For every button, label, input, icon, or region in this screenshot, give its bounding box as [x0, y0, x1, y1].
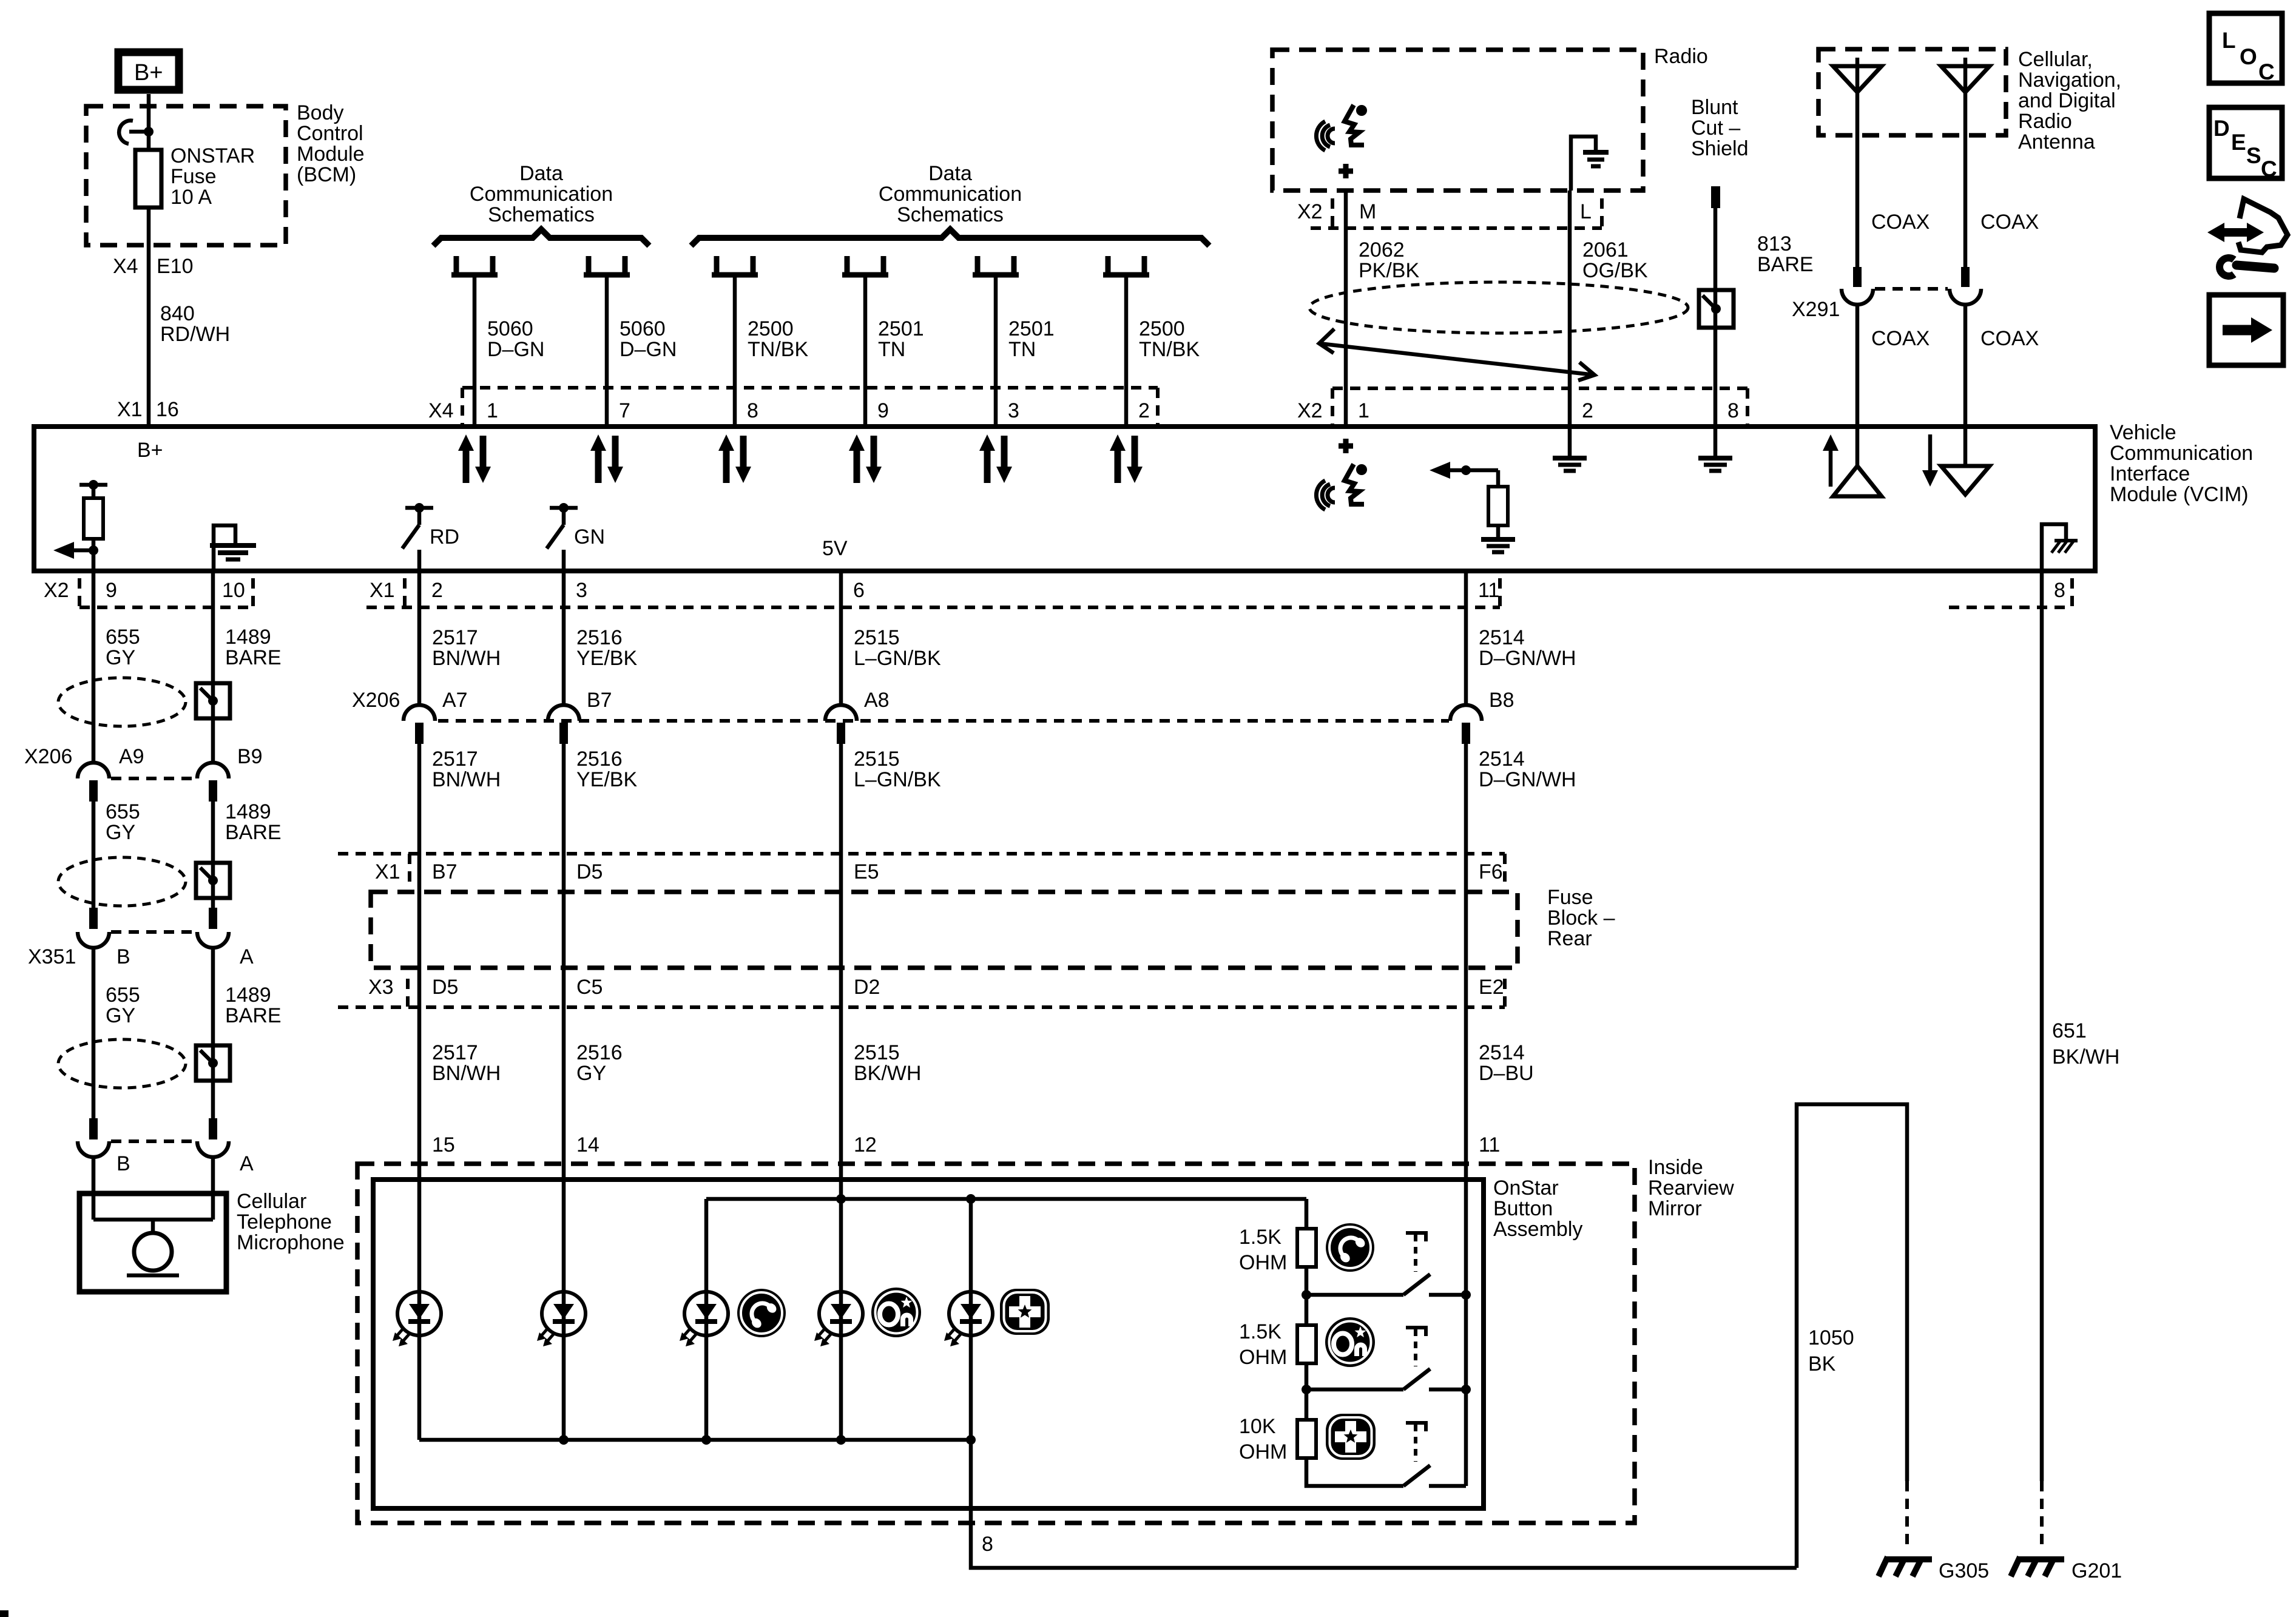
svg-text:L: L [2222, 28, 2236, 53]
svg-text:Antenna: Antenna [2018, 130, 2095, 154]
svg-text:X4: X4 [428, 399, 454, 422]
svg-text:TN/BK: TN/BK [748, 338, 808, 361]
wire label 2514 D–BU (3) [1479, 1041, 1534, 1085]
svg-text:E2: E2 [1479, 976, 1504, 999]
wire label 1489 BARE [225, 626, 282, 669]
fuse block X1 row dotted [338, 854, 1505, 887]
internal termination T-bar [79, 483, 107, 487]
wire label 2501 TN [878, 317, 924, 361]
svg-text:A9: A9 [119, 745, 144, 768]
svg-text:Radio: Radio [1654, 45, 1708, 68]
switch 1 row [1306, 1274, 1466, 1295]
svg-text:COAX: COAX [1980, 211, 2039, 234]
svg-text:Cellular: Cellular [237, 1190, 306, 1213]
wire circuit 2515 through fuse block [839, 854, 843, 1007]
bidirectional data arrows 1 [458, 434, 491, 483]
svg-text:L: L [1580, 200, 1592, 223]
svg-text:Button: Button [1493, 1197, 1553, 1220]
svg-text:X1: X1 [370, 579, 395, 602]
wire pin 8 drop [971, 1440, 1797, 1568]
label Cellular Telephone Microphone [237, 1190, 345, 1254]
svg-text:6: 6 [853, 579, 865, 602]
svg-text:2500: 2500 [1139, 317, 1185, 340]
onstar button assembly box [373, 1180, 1484, 1508]
label Fuse Block Rear [1547, 886, 1615, 950]
junction dot sw1 left [1302, 1290, 1311, 1300]
twisted pair shield ellipse (radio) [1309, 282, 1688, 333]
svg-text:X4: X4 [113, 255, 138, 278]
junction dot bus/LED2 [559, 1435, 569, 1445]
wire label 2516 GY (3) [576, 1041, 623, 1085]
LED cathode bus [419, 1438, 971, 1442]
connector X291 arcs [1842, 289, 1981, 305]
coax wire 1 upper [1855, 135, 1860, 271]
svg-text:2516: 2516 [576, 1041, 623, 1064]
wire G305 dashed drop [1905, 1481, 1909, 1551]
svg-text:2500: 2500 [748, 317, 794, 340]
wire 655 GY segment 3 [92, 947, 96, 1126]
label Data Communication Schematics (left group) [470, 162, 613, 226]
svg-text:BARE: BARE [1757, 253, 1814, 276]
svg-text:BK/WH: BK/WH [2052, 1045, 2119, 1068]
wire circuit 2516 through fuse block [562, 854, 566, 1007]
wire circuit 2517 through fuse block [417, 854, 422, 1007]
connector to data link 4 [842, 256, 888, 275]
microphone connector arcs [78, 1141, 229, 1157]
wire circuit 2517 segment 1 [417, 571, 422, 705]
onstar icon (LED4) [871, 1288, 921, 1337]
wire circuit 2514 segment 2 [1464, 744, 1468, 854]
label Inside Rearview Mirror [1648, 1156, 1734, 1220]
svg-text:Blunt: Blunt [1691, 96, 1738, 119]
svg-text:BARE: BARE [225, 1004, 282, 1027]
svg-text:E: E [2231, 130, 2246, 155]
svg-text:Vehicle: Vehicle [2110, 421, 2176, 444]
wire label 1050 BK [1808, 1326, 1854, 1376]
svg-text:2515: 2515 [854, 1041, 900, 1064]
wire label 813 BARE [1757, 232, 1814, 276]
junction dot sw2 right [1461, 1385, 1471, 1394]
svg-text:14: 14 [576, 1133, 599, 1156]
connector row X1 dashed [366, 578, 1500, 607]
wire label 2515 L–GN/BK [854, 626, 941, 670]
junction dot [144, 127, 154, 137]
svg-text:2501: 2501 [878, 317, 924, 340]
junction dot bus/LED5 [966, 1435, 976, 1445]
blunt cut end [1711, 186, 1720, 208]
speaker voice icon (radio) [1316, 105, 1367, 150]
svg-text:Inside: Inside [1648, 1156, 1703, 1179]
svg-text:D–GN: D–GN [620, 338, 677, 361]
wire label 2500 TN/BK [1139, 317, 1200, 361]
switch 2 row [1306, 1369, 1466, 1389]
svg-text:X291: X291 [1792, 298, 1840, 321]
label 10K OHM [1239, 1415, 1287, 1463]
svg-text:8: 8 [747, 399, 758, 422]
svg-text:Communication: Communication [879, 183, 1022, 206]
svg-text:2061: 2061 [1582, 238, 1629, 262]
LOC navigation box [2209, 13, 2282, 84]
connector row X2(1,2,8) dashed [1332, 388, 1747, 424]
bidirectional data arrows 3 [718, 434, 751, 483]
svg-text:B7: B7 [587, 689, 612, 712]
svg-text:X2: X2 [44, 579, 69, 602]
crossover arrow (twisted pair) [1319, 329, 1595, 380]
svg-text:OG/BK: OG/BK [1582, 259, 1648, 282]
svg-text:840: 840 [160, 302, 195, 325]
svg-text:Microphone: Microphone [237, 1231, 345, 1254]
svg-text:OHM: OHM [1239, 1346, 1287, 1369]
wire label 2515 L–GN/BK (2) [854, 748, 941, 791]
DESC navigation box [2209, 107, 2282, 181]
svg-text:Fuse: Fuse [171, 165, 217, 188]
label 1.5K OHM (2) [1239, 1320, 1287, 1369]
svg-text:YE/BK: YE/BK [576, 768, 637, 791]
shield terminal square 2 [196, 863, 230, 898]
svg-text:D5: D5 [576, 860, 603, 883]
wire CAN bus 4 circuit 2500 [1124, 275, 1129, 427]
svg-text:11: 11 [1478, 579, 1499, 602]
wire circuit 2516 segment 3 [562, 1007, 566, 1180]
internal arrow to X2-9 [53, 542, 93, 559]
svg-text:TN: TN [878, 338, 905, 361]
svg-text:F6: F6 [1479, 860, 1503, 883]
wire 813 BARE [1714, 206, 1718, 427]
svg-text:D–GN/WH: D–GN/WH [1479, 647, 1576, 670]
svg-text:B: B [116, 1152, 130, 1175]
switch 3 row [1306, 1458, 1466, 1486]
svg-text:YE/BK: YE/BK [576, 647, 637, 670]
svg-text:BARE: BARE [225, 821, 282, 844]
svg-text:Module: Module [297, 143, 365, 166]
wire label 1489 BARE (3) [225, 984, 282, 1027]
svg-text:C5: C5 [576, 976, 603, 999]
wire label 2061 OG/BK [1582, 238, 1648, 282]
svg-text:Communication: Communication [2110, 442, 2253, 465]
wire CAN bus 1 circuit 2500 [733, 275, 737, 427]
svg-text:Rear: Rear [1547, 927, 1592, 950]
vehicle communication interface module (VCIM) box [34, 427, 2095, 571]
wire circuit 2515 segment 1 [839, 571, 843, 705]
svg-text:5060: 5060 [487, 317, 533, 340]
fuse block rear heavy dashed box [371, 892, 1518, 968]
antenna symbol 1 [1833, 58, 1882, 135]
svg-text:L–GN/BK: L–GN/BK [854, 768, 941, 791]
LED 2 [537, 1292, 586, 1346]
svg-text:2516: 2516 [576, 626, 623, 649]
connector X351 arcs [78, 932, 229, 948]
switch RD [402, 503, 433, 571]
LED 3 [680, 1292, 728, 1346]
svg-text:M: M [1359, 200, 1376, 223]
fuse ONSTAR 10A [135, 150, 161, 208]
svg-text:G305: G305 [1939, 1559, 1989, 1582]
svg-text:Mirror: Mirror [1648, 1197, 1702, 1220]
svg-text:655: 655 [106, 984, 140, 1007]
connector X206 arc B8 [1450, 705, 1482, 721]
wire 1050 BK loop [1797, 1104, 1907, 1568]
svg-text:15: 15 [432, 1133, 455, 1156]
twisted pair shield ellipse 1 [58, 678, 186, 726]
connector to data link 5 [973, 256, 1019, 275]
connector to data link 1 [451, 256, 498, 275]
svg-text:COAX: COAX [1871, 211, 1930, 234]
cross icon (button) [1326, 1414, 1376, 1460]
svg-text:2517: 2517 [432, 626, 478, 649]
svg-text:Assembly: Assembly [1493, 1218, 1582, 1241]
label Data Communication Schematics (right group) [879, 162, 1022, 226]
svg-text:1489: 1489 [225, 984, 271, 1007]
svg-text:1: 1 [1358, 399, 1369, 422]
svg-text:Cut –: Cut – [1691, 116, 1740, 140]
svg-text:GY: GY [106, 821, 135, 844]
switch 3 actuator [1406, 1423, 1428, 1462]
label ONSTAR Fuse 10 A [171, 144, 255, 209]
junction dot [89, 480, 98, 490]
resistor 1.5K OHM (onstar) [1297, 1295, 1316, 1363]
svg-text:2062: 2062 [1359, 238, 1405, 262]
ground symbol inside radio [1571, 137, 1609, 191]
svg-text:3: 3 [1008, 399, 1019, 422]
internal arrow + resistor to ground (X1-11) [1430, 462, 1515, 552]
svg-text:5V: 5V [822, 537, 848, 560]
svg-text:8: 8 [1727, 399, 1739, 422]
svg-text:E10: E10 [157, 255, 194, 278]
internal ground chassis (X2-8 right) [2042, 524, 2078, 571]
wire G201 dashed drop [2040, 1481, 2044, 1551]
svg-text:S: S [2246, 143, 2261, 168]
speaker voice icon (VCIM) [1316, 464, 1367, 510]
svg-text:Control: Control [297, 122, 363, 145]
svg-text:D: D [2213, 116, 2230, 141]
svg-text:655: 655 [106, 800, 140, 823]
LED 4 [814, 1292, 863, 1346]
svg-text:COAX: COAX [1871, 327, 1930, 350]
wire circuit 2514 through fuse block [1464, 854, 1468, 1007]
wire 2061 OG/BK (L) [1568, 191, 1572, 427]
breaker hook symbol [119, 121, 149, 144]
antenna symbol 2 [1941, 58, 1990, 135]
wire circuit 2515 segment 3 [839, 1007, 843, 1180]
svg-text:3: 3 [576, 579, 587, 602]
connector X206 row dashed [438, 719, 1449, 723]
internal ground (X2-2) [1553, 429, 1587, 471]
switch GN [547, 503, 578, 571]
svg-text:Radio: Radio [2018, 110, 2072, 133]
svg-text:2514: 2514 [1479, 748, 1525, 771]
coax wire 2 upper [1963, 135, 1968, 271]
wire 1489 BARE segment 2 [211, 802, 215, 909]
svg-text:16: 16 [156, 398, 179, 421]
LED 1 [393, 1292, 441, 1346]
junction dot bus/LED3 [701, 1435, 711, 1445]
twisted pair shield ellipse 2 [58, 857, 186, 906]
svg-text:BN/WH: BN/WH [432, 768, 501, 791]
svg-text:and Digital: and Digital [2018, 89, 2116, 112]
cellular telephone microphone box [79, 1193, 226, 1292]
shield terminal square (radio) [1699, 290, 1734, 328]
internal antenna up arrow [1823, 434, 1838, 487]
wrench diagnostic icon [2207, 199, 2288, 276]
svg-text:X351: X351 [28, 945, 76, 968]
wire label 2514 D–GN/WH [1479, 626, 1576, 670]
junction dot sw1 right [1461, 1290, 1471, 1300]
svg-text:BN/WH: BN/WH [432, 647, 501, 670]
wire circuit 2517 segment 3 [417, 1007, 422, 1180]
wire serial data 2 circuit 5060 [605, 275, 609, 427]
wire label 655 GY [106, 626, 140, 669]
pin label X4 E10 [113, 255, 194, 278]
internal feed line (pin 12 rail) [706, 1197, 1306, 1201]
label Cellular Navigation and Digital Radio Antenna [2018, 48, 2121, 154]
wire circuit 2516 segment 2 [562, 744, 566, 854]
svg-text:9: 9 [877, 399, 889, 422]
wire label 2500 TN/BK [748, 317, 808, 361]
internal ground (X2-10) [210, 525, 256, 571]
connector row X2(M,L) dashed [1311, 198, 1602, 228]
wire pin 11 drop [1464, 1180, 1468, 1486]
pin label X1 16 [117, 398, 179, 421]
shield terminal square 1 [196, 683, 230, 718]
svg-text:7: 7 [619, 399, 630, 422]
svg-text:(BCM): (BCM) [297, 163, 356, 186]
resistor chain feed [1305, 1199, 1309, 1229]
svg-text:B+: B+ [134, 60, 163, 86]
LED 5 [944, 1292, 993, 1346]
svg-text:C: C [2258, 59, 2275, 84]
svg-text:10 A: 10 A [171, 186, 212, 209]
wire circuit 2517 segment 2 [417, 744, 422, 854]
brace right data group [691, 229, 1209, 246]
wire CAN bus 2 circuit 2501 [863, 275, 868, 427]
wire label 2514 D–GN/WH (2) [1479, 748, 1576, 791]
wire circuit 2516 segment 1 [562, 571, 566, 705]
forward arrow box [2209, 295, 2283, 365]
svg-text:A: A [240, 945, 254, 968]
pin stub B7 [559, 723, 568, 744]
svg-text:2: 2 [1582, 399, 1593, 422]
junction dot rail/12 [836, 1194, 846, 1204]
bidirectional data arrows 2 [590, 434, 623, 483]
svg-text:B+: B+ [137, 439, 163, 462]
svg-text:B7: B7 [432, 860, 458, 883]
svg-text:Rearview: Rearview [1648, 1176, 1734, 1200]
plus polarity mark (radio) [1339, 164, 1353, 178]
svg-text:1.5K: 1.5K [1239, 1320, 1281, 1343]
svg-text:OnStar: OnStar [1493, 1176, 1559, 1200]
svg-text:2514: 2514 [1479, 626, 1525, 649]
svg-text:655: 655 [106, 626, 140, 649]
svg-text:BK: BK [1808, 1352, 1836, 1376]
radio dashed box [1272, 50, 1643, 191]
connector row X2 left dashed [79, 578, 253, 607]
onstar icon (button) [1325, 1317, 1375, 1367]
connector row X2 right dashed [1949, 578, 2072, 607]
svg-text:2514: 2514 [1479, 1041, 1525, 1064]
internal antenna down arrow [1922, 434, 1938, 487]
junction dot rail/LED5 [966, 1194, 976, 1204]
wire label 2517 BN/WH [432, 626, 501, 670]
wire 651 BK/WH [2040, 571, 2044, 1481]
svg-text:10: 10 [222, 579, 245, 602]
internal antenna symbol up [1833, 429, 1882, 496]
body control module (BCM) dashed box [86, 106, 286, 245]
svg-text:1489: 1489 [225, 800, 271, 823]
svg-text:D2: D2 [854, 976, 880, 999]
svg-text:TN/BK: TN/BK [1139, 338, 1200, 361]
plus polarity mark (VCIM) [1339, 439, 1353, 453]
svg-text:8: 8 [982, 1533, 993, 1556]
svg-text:1: 1 [487, 399, 498, 422]
svg-text:OHM: OHM [1239, 1251, 1287, 1274]
svg-text:1.5K: 1.5K [1239, 1226, 1281, 1249]
svg-text:RD/WH: RD/WH [160, 323, 230, 346]
wire circuit 2514 segment 1 [1464, 571, 1468, 705]
junction dot [89, 545, 98, 555]
wire circuit 2515 segment 2 [839, 744, 843, 854]
svg-text:D–GN/WH: D–GN/WH [1479, 768, 1576, 791]
svg-text:ONSTAR: ONSTAR [171, 144, 255, 167]
svg-text:11: 11 [1479, 1133, 1500, 1156]
svg-text:5060: 5060 [620, 317, 666, 340]
brace left data group [433, 229, 649, 246]
svg-text:G201: G201 [2071, 1559, 2122, 1582]
svg-text:2517: 2517 [432, 748, 478, 771]
svg-text:Telephone: Telephone [237, 1210, 332, 1234]
wire label 2501 TN [1008, 317, 1055, 361]
wire to microphone A [211, 1156, 215, 1193]
connector to data link 3 [712, 256, 758, 275]
svg-text:2516: 2516 [576, 748, 623, 771]
svg-text:O: O [2240, 44, 2257, 69]
internal resistor (B+ feed) [84, 485, 103, 571]
connector row X4 dashed line [462, 388, 1158, 424]
coax wire 2 lower [1963, 304, 1968, 427]
svg-text:B8: B8 [1489, 689, 1514, 712]
pin stub A9 [89, 780, 98, 802]
switch 1 actuator [1406, 1233, 1428, 1272]
svg-text:Navigation,: Navigation, [2018, 69, 2121, 92]
svg-text:GY: GY [106, 1004, 135, 1027]
wire LED3 [704, 1199, 709, 1440]
svg-text:C: C [2261, 157, 2277, 181]
svg-text:D–BU: D–BU [1479, 1062, 1534, 1085]
wire LED5 [969, 1199, 973, 1440]
wire label 655 GY (2) [106, 800, 140, 844]
junction dot sw2 left [1302, 1385, 1311, 1394]
wire 2062 PK/BK (M) [1344, 191, 1348, 427]
svg-text:E5: E5 [854, 860, 879, 883]
svg-text:X2: X2 [1297, 399, 1323, 422]
svg-text:X3: X3 [368, 976, 394, 999]
pin stub A8 [837, 723, 845, 744]
svg-text:GY: GY [106, 646, 135, 669]
connector to data link 6 [1103, 256, 1149, 275]
wire label 1489 BARE (2) [225, 800, 282, 844]
svg-text:BN/WH: BN/WH [432, 1062, 501, 1085]
switch 2 actuator [1406, 1328, 1428, 1366]
svg-text:X1: X1 [117, 398, 143, 421]
connector to data link 2 [584, 256, 630, 275]
svg-text:Data: Data [928, 162, 972, 185]
svg-text:Schematics: Schematics [897, 203, 1004, 226]
connector X206 arc A7 [403, 705, 435, 721]
label Blunt Cut Shield [1691, 96, 1749, 160]
wire 1489 BARE segment 3 [211, 947, 215, 1126]
connector X291 pin stubs [1853, 267, 1970, 287]
label Body Control Module (BCM) [297, 101, 365, 186]
internal antenna symbol down [1941, 429, 1990, 495]
